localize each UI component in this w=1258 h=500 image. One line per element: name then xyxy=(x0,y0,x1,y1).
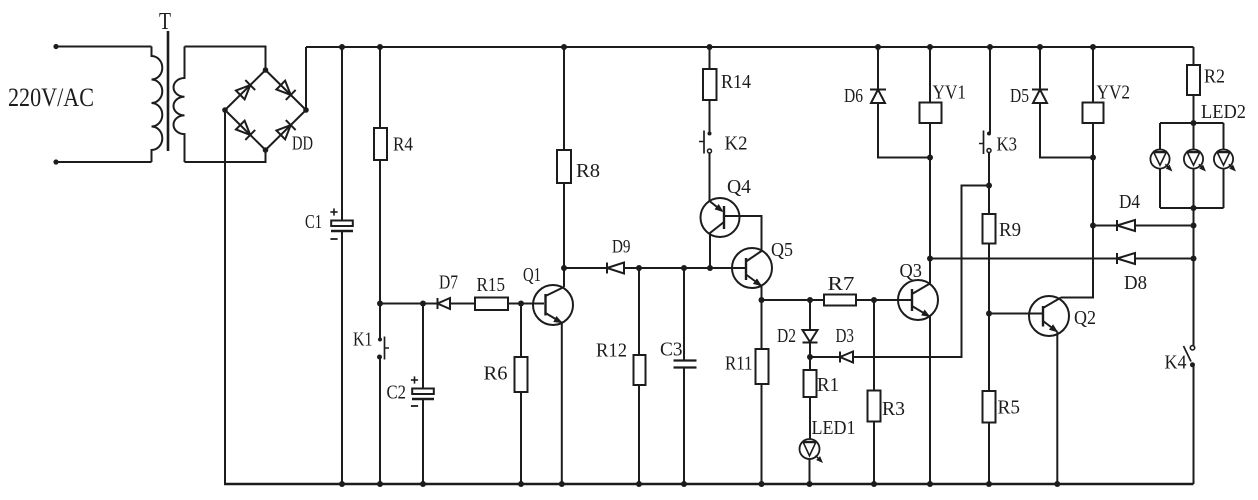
wire AC top xyxy=(56,46,152,48)
wire D8 right xyxy=(1135,258,1194,260)
wire LED2.3 lower xyxy=(1223,169,1225,208)
junction R3 branch xyxy=(871,297,877,303)
svg-text:C3: C3 xyxy=(660,339,683,361)
resistor R4 xyxy=(374,128,387,160)
wire AC bottom xyxy=(56,161,152,163)
svg-text:R6: R6 xyxy=(484,363,508,385)
transformer T primary winding xyxy=(152,47,163,163)
wire LED2.1 lower xyxy=(1159,169,1161,208)
wire R9 upper xyxy=(988,186,990,215)
svg-text:LED2: LED2 xyxy=(1201,101,1246,123)
svg-text:D2: D2 xyxy=(777,325,796,347)
diode DD4 (bridge lower-right) xyxy=(276,125,290,139)
svg-text:D6: D6 xyxy=(844,85,863,107)
wire bottom ground rail xyxy=(224,483,1194,485)
wire bridge edge T-R xyxy=(266,70,307,110)
wire R9 lower xyxy=(988,244,990,314)
svg-text:K3: K3 xyxy=(997,134,1018,156)
wire R14 upper xyxy=(709,47,711,69)
svg-text:R12: R12 xyxy=(596,340,627,362)
svg-text:C1: C1 xyxy=(305,211,322,233)
wire LED2 bottom bus xyxy=(1160,207,1224,209)
svg-text:R9: R9 xyxy=(999,219,1021,241)
resistor R12 xyxy=(634,355,646,385)
wire bridge left dropper xyxy=(224,110,226,484)
junction right rail / D4 xyxy=(1191,223,1197,229)
capacitor C1 minus xyxy=(330,238,337,240)
svg-text:K4: K4 xyxy=(1165,352,1187,374)
wire secondary bottom xyxy=(185,150,266,162)
diode D9 xyxy=(606,263,608,274)
capacitor C2 xyxy=(412,389,434,395)
wire D9 to Q5 base xyxy=(624,267,746,269)
svg-text:DD: DD xyxy=(292,133,313,155)
wire LED2.2 upper xyxy=(1193,123,1195,150)
relay coil YV2 xyxy=(1083,103,1104,124)
junction top rail / YV2 xyxy=(1090,44,1096,50)
junction C3 branch xyxy=(681,265,687,271)
junction D2 branch xyxy=(807,297,813,303)
wire Q1 emitter xyxy=(561,323,563,485)
capacitor C3 xyxy=(674,359,697,361)
wire right rail D4-D8 xyxy=(1193,226,1195,259)
wire K3 lower xyxy=(988,153,990,186)
wire R12 upper xyxy=(638,268,640,355)
wire C3 upper xyxy=(683,268,685,360)
resistor R9 xyxy=(983,214,996,244)
junction bottom rail / C3 xyxy=(681,481,687,487)
svg-text:Q1: Q1 xyxy=(523,264,541,286)
wire D4 right xyxy=(1135,225,1194,227)
wire Q2 emitter xyxy=(1056,332,1058,485)
wire K3 upper xyxy=(989,47,991,134)
svg-text:R7: R7 xyxy=(828,273,855,295)
diode DD1 (bridge upper-left) xyxy=(236,85,250,99)
junction node D9 left xyxy=(561,265,567,271)
junction top rail / D5 xyxy=(1037,44,1043,50)
junction bridge right xyxy=(303,107,309,113)
junction top rail / K3 xyxy=(987,44,993,50)
diode DD3 (bridge lower-left) xyxy=(236,121,250,135)
junction bridge bottom xyxy=(263,147,269,153)
wire bridge right riser xyxy=(305,47,307,110)
wire LED2.1 upper xyxy=(1159,123,1161,150)
wire D5 lower xyxy=(1040,103,1093,158)
svg-text:K1: K1 xyxy=(353,329,373,351)
transistor Q4 xyxy=(701,198,740,237)
wire R3 upper xyxy=(873,300,875,391)
led LED2.2 xyxy=(1184,149,1203,168)
junction bridge top xyxy=(263,67,269,73)
svg-text:220V/AC: 220V/AC xyxy=(8,83,94,112)
resistor R8 xyxy=(557,150,571,183)
wire R14 to K2 xyxy=(709,100,711,134)
transistor Q1 xyxy=(533,285,573,325)
junction node D7 branch xyxy=(377,301,383,307)
junction bottom rail / K1 xyxy=(377,481,383,487)
capacitor C1 xyxy=(331,221,353,227)
junction D3 branch xyxy=(807,354,813,360)
resistor R11 xyxy=(756,349,769,384)
resistor R14 xyxy=(703,69,717,100)
junction bottom rail / Q1 emitter xyxy=(559,481,565,487)
wire R7 to Q3 base xyxy=(856,299,912,301)
wire R1 to LED1 xyxy=(809,397,811,439)
wire bridge edge B-R xyxy=(266,110,307,150)
wire Q3 emitter xyxy=(929,316,931,484)
junction Q5 emitter node xyxy=(759,297,765,303)
wire LED2.3 upper xyxy=(1223,123,1225,150)
junction bottom rail / R5 xyxy=(986,481,992,487)
wire C3 lower xyxy=(683,368,685,484)
svg-text:D3: D3 xyxy=(836,325,855,347)
svg-text:Q2: Q2 xyxy=(1074,307,1096,329)
diode DD2 (bridge upper-right) xyxy=(276,81,290,95)
wire Q3 collector node to D8 xyxy=(930,258,1117,260)
wire R2 upper xyxy=(1193,47,1195,65)
junction YV2/Q2 collector node xyxy=(1090,223,1096,229)
terminal bottom-left xyxy=(53,159,58,164)
led LED1 xyxy=(800,439,820,459)
junction YV1/Q3 collector node xyxy=(927,256,933,262)
wire D6 lower xyxy=(878,103,930,158)
junction top rail / R4 xyxy=(377,44,383,50)
wire R6 lower xyxy=(520,392,522,484)
wire Q1 collector xyxy=(563,268,565,287)
wire D7 to R15 xyxy=(450,303,475,305)
junction R12 branch xyxy=(636,265,642,271)
switch K1 xyxy=(378,338,382,342)
wire LED2.2 lower xyxy=(1193,169,1195,208)
wire C1 lower xyxy=(341,232,343,485)
wire bridge edge L-B xyxy=(225,110,266,150)
svg-text:LED1: LED1 xyxy=(812,417,856,439)
wire D2 upper xyxy=(809,300,811,330)
transistor Q3 xyxy=(898,280,938,320)
wire R8 lower xyxy=(563,183,565,268)
wire R12 lower xyxy=(638,385,640,484)
wire R11 lower xyxy=(761,384,763,484)
wire YV1 upper xyxy=(929,47,931,103)
svg-text:C2: C2 xyxy=(387,382,407,404)
wire R4 upper xyxy=(379,47,381,128)
junction right rail / D8 xyxy=(1191,256,1197,262)
capacitor C2 minus xyxy=(411,405,418,407)
wire K4 lower xyxy=(1193,365,1195,484)
junction bottom rail / R6 xyxy=(518,481,524,487)
svg-text:Q4: Q4 xyxy=(727,176,751,198)
svg-text:Q3: Q3 xyxy=(900,260,923,282)
capacitor C2 plus xyxy=(411,379,418,381)
wire R11 upper xyxy=(761,300,763,349)
wire R2 lower xyxy=(1193,95,1195,123)
wire YV2 lower xyxy=(1092,123,1094,158)
junction bottom rail / R3 xyxy=(871,481,877,487)
diode D4 xyxy=(1116,220,1118,231)
wire node to D7 xyxy=(380,303,438,305)
svg-text:T: T xyxy=(159,9,171,35)
wire C1 upper xyxy=(341,47,343,221)
resistor R3 xyxy=(868,391,881,422)
junction bottom rail / R12 xyxy=(636,481,642,487)
junction bridge left xyxy=(222,107,228,113)
wire D2 lower xyxy=(809,343,811,357)
junction bottom rail / Q2 emitter xyxy=(1054,481,1060,487)
diode D7 xyxy=(437,298,439,309)
resistor R2 xyxy=(1187,65,1200,95)
led LED2.1 xyxy=(1150,149,1169,168)
wire R1 upper xyxy=(809,357,811,370)
svg-text:K2: K2 xyxy=(725,133,748,155)
wire LED2 top bus xyxy=(1160,122,1224,124)
wire secondary top xyxy=(185,47,266,71)
wire R3 lower xyxy=(873,422,875,485)
capacitor C1 plus xyxy=(330,211,337,213)
junction top rail / R8 xyxy=(561,44,567,50)
wire D3 left xyxy=(810,356,840,358)
wire C2 lower xyxy=(422,400,424,485)
wire Q2 base xyxy=(989,313,1043,315)
svg-text:R8: R8 xyxy=(576,160,600,182)
switch K2 xyxy=(708,132,712,136)
junction top rail / R14 xyxy=(707,44,713,50)
junction top rail / YV1 xyxy=(927,44,933,50)
wire Q4 base to Q5 collector xyxy=(724,216,762,251)
svg-text:R11: R11 xyxy=(725,353,753,375)
wire K2 to Q4 xyxy=(709,153,711,201)
wire R4 to K1 xyxy=(379,160,381,340)
junction R6 branch xyxy=(518,301,524,307)
wire R5 lower xyxy=(988,423,990,485)
wire R5 upper xyxy=(988,314,990,392)
resistor R7 xyxy=(824,295,856,306)
wire C2 upper xyxy=(422,304,424,389)
junction bottom rail / C1 xyxy=(339,481,345,487)
wire Q2 collector xyxy=(1061,158,1093,298)
junction Q4 collector node xyxy=(707,265,713,271)
transistor Q5 xyxy=(732,248,772,288)
transistor Q2 xyxy=(1029,296,1069,336)
svg-text:D8: D8 xyxy=(1124,272,1147,294)
wire LED1 lower xyxy=(809,460,811,485)
junction bottom rail / Q3 emitter xyxy=(927,481,933,487)
wire D9 left xyxy=(564,267,607,269)
terminal top-left xyxy=(53,44,58,49)
diode D3 xyxy=(839,352,841,363)
led LED2.3 xyxy=(1214,149,1233,168)
wire Q5 emitter to R7 xyxy=(762,299,825,301)
wire R6 upper xyxy=(520,304,522,358)
junction C2 branch xyxy=(420,301,426,307)
resistor R5 xyxy=(983,391,996,423)
svg-text:D7: D7 xyxy=(439,272,458,294)
svg-text:YV1: YV1 xyxy=(933,82,967,104)
junction YV1/D6 node xyxy=(927,155,933,161)
junction top rail / C1 xyxy=(339,44,345,50)
wire R15 to Q1 base xyxy=(508,303,544,305)
wire right rail D8-K4 xyxy=(1193,259,1195,346)
svg-text:R5: R5 xyxy=(998,397,1021,419)
diode D2 xyxy=(803,330,818,342)
svg-text:R15: R15 xyxy=(477,274,506,296)
wire D5 upper xyxy=(1039,47,1041,90)
svg-text:D5: D5 xyxy=(1010,85,1029,107)
wire Q5 emitter xyxy=(761,286,763,301)
junction YV2/D5 node xyxy=(1090,155,1096,161)
junction LED2 top bus xyxy=(1191,120,1197,126)
wire D3 to K3 node xyxy=(853,186,989,358)
diode D6 xyxy=(870,89,886,91)
junction bottom rail / C2 xyxy=(420,481,426,487)
svg-text:R2: R2 xyxy=(1204,66,1225,88)
resistor R1 xyxy=(804,370,817,397)
resistor R6 xyxy=(515,357,528,392)
svg-text:R4: R4 xyxy=(393,134,413,156)
wire D6 upper xyxy=(877,47,879,90)
relay coil YV1 xyxy=(920,103,942,124)
diode D8 xyxy=(1116,253,1118,264)
junction bottom rail / LED1 xyxy=(807,481,813,487)
switch K4 xyxy=(1190,346,1194,350)
svg-text:R14: R14 xyxy=(721,71,751,93)
svg-text:Q5: Q5 xyxy=(771,239,793,261)
wire YV1 lower xyxy=(929,123,931,284)
switch K3 xyxy=(987,132,991,136)
svg-text:D4: D4 xyxy=(1119,191,1140,213)
diode D5 xyxy=(1032,89,1048,91)
wire R8 upper xyxy=(563,47,565,150)
wire Q3 collector xyxy=(929,259,931,284)
junction R9/Q2 base node xyxy=(986,311,992,317)
svg-text:YV2: YV2 xyxy=(1097,82,1131,104)
svg-text:R3: R3 xyxy=(882,398,905,420)
wire top supply rail xyxy=(306,46,1194,48)
wire D4 left xyxy=(1093,225,1117,227)
junction LED2 bottom bus xyxy=(1191,205,1197,211)
wire bridge edge L-T xyxy=(225,70,266,110)
transformer T secondary winding xyxy=(173,47,184,163)
transformer T core xyxy=(167,31,170,151)
wire K1 lower xyxy=(379,357,381,484)
junction top rail / D6 xyxy=(875,44,881,50)
junction K3/R9/D3 node xyxy=(986,183,992,189)
junction bottom rail / R11 xyxy=(759,481,765,487)
svg-text:R1: R1 xyxy=(817,374,839,396)
svg-text:D9: D9 xyxy=(612,237,631,258)
wire YV2 upper xyxy=(1092,47,1094,103)
resistor R15 xyxy=(475,298,508,311)
wire LED2 bus to D4 node xyxy=(1193,208,1195,226)
